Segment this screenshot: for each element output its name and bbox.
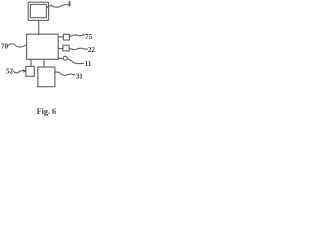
display box 4 inner — [30, 4, 46, 17]
wire: controller to box 75 — [58, 36, 63, 38]
svg-text:22: 22 — [88, 46, 95, 54]
leader to label 31 — [59, 72, 75, 75]
svg-text:31: 31 — [76, 72, 84, 80]
display box 4 outer — [28, 2, 48, 20]
svg-text:70: 70 — [1, 43, 9, 51]
wire: controller to sensor 11 — [58, 57, 63, 59]
wire: controller to box 52 — [30, 59, 32, 66]
arrow leader for label 52 — [13, 71, 24, 73]
wire: controller to box 22 — [58, 48, 63, 50]
wire: controller to box 31 — [43, 59, 45, 67]
wire: display to controller — [38, 21, 40, 35]
box 75 — [63, 34, 69, 40]
svg-text:4: 4 — [67, 0, 71, 9]
svg-text:75: 75 — [85, 33, 93, 41]
box 22 — [63, 45, 69, 51]
leader to label 22 — [69, 48, 87, 49]
arrowhead 52 — [23, 70, 26, 73]
box 52 — [26, 66, 34, 76]
leader for label 70 — [8, 44, 26, 47]
box 31 — [38, 67, 55, 87]
svg-text:11: 11 — [85, 60, 92, 68]
wire stub to leader 31 — [55, 71, 59, 73]
sensor circle 11 — [63, 56, 67, 60]
leader to label 4 — [47, 4, 66, 7]
leader to label 75 — [70, 35, 85, 37]
svg-text:52: 52 — [6, 67, 14, 75]
controller box 70 — [27, 34, 59, 59]
svg-text:Fig. 6: Fig. 6 — [37, 107, 57, 116]
leader to label 11 — [67, 59, 83, 64]
